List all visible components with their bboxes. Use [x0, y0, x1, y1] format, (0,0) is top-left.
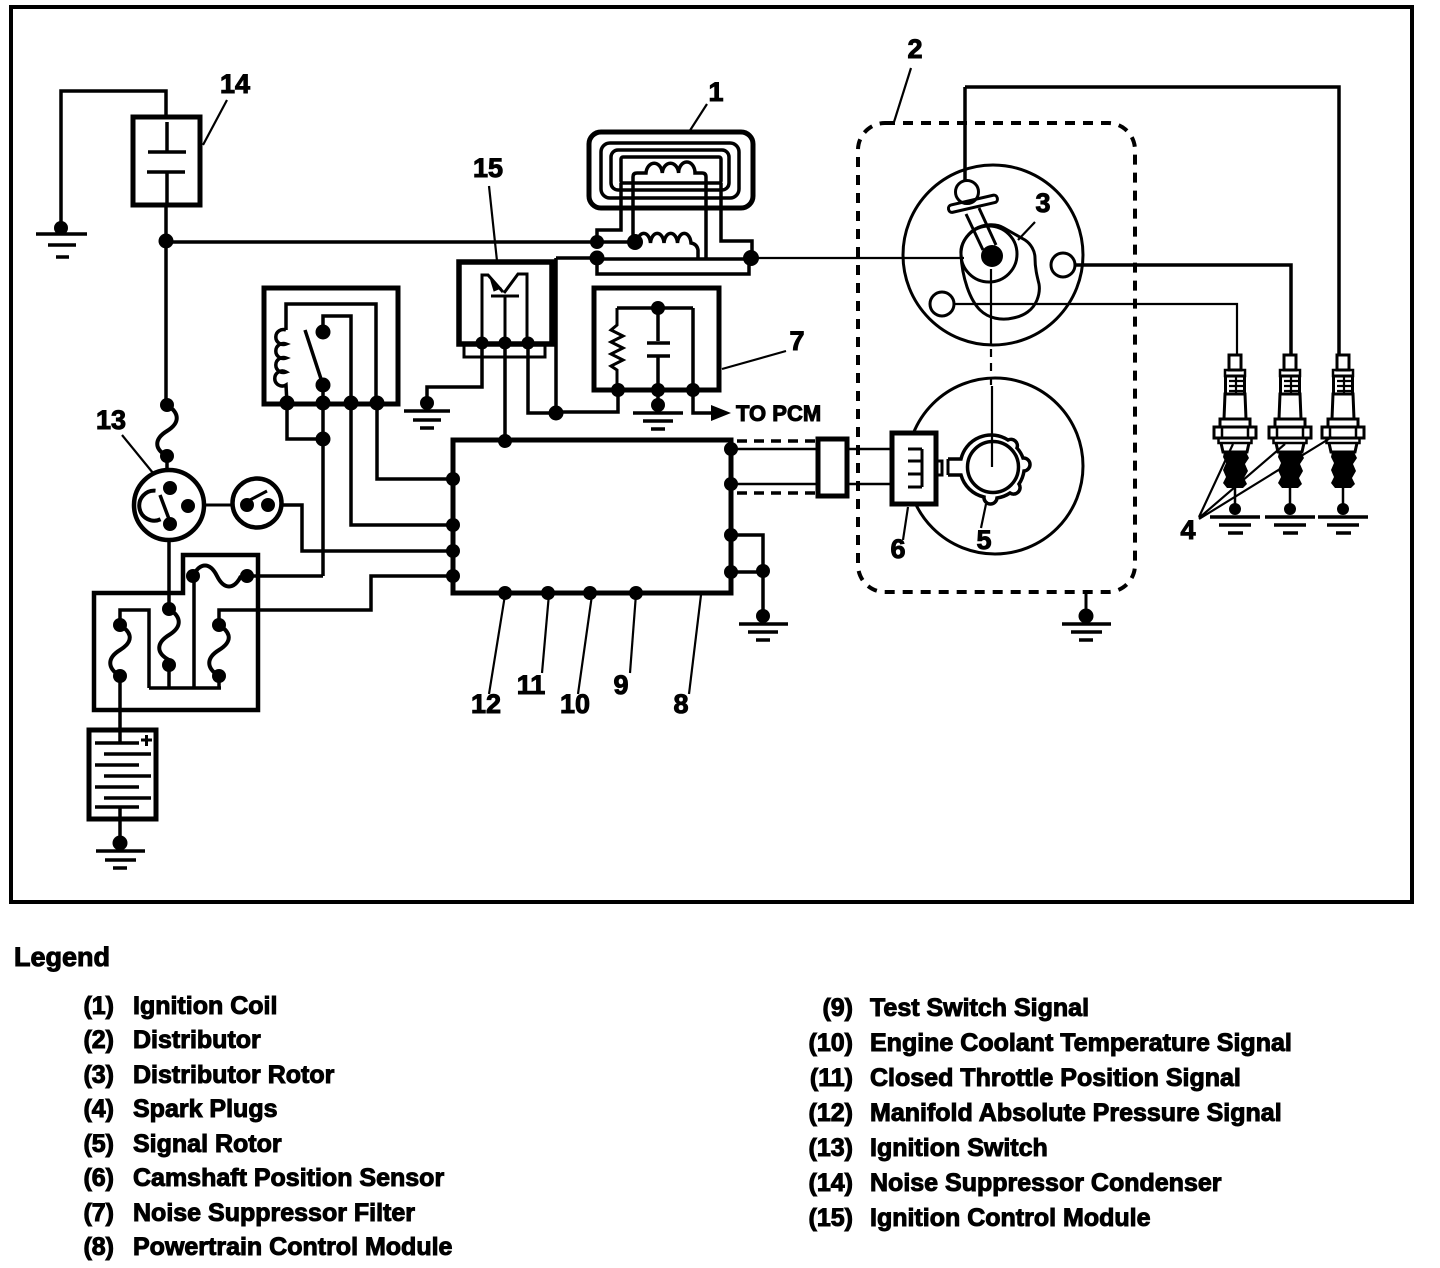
- battery negative lead: [118, 807, 122, 843]
- svg-text:8: 8: [673, 689, 688, 719]
- wire under primary: [597, 257, 751, 261]
- cap terminal lower-left: [930, 292, 954, 316]
- svg-text:(5): (5): [83, 1130, 114, 1158]
- relay inner box: [286, 304, 376, 404]
- svg-text:4: 4: [1180, 515, 1195, 545]
- svg-text:Legend: Legend: [14, 942, 110, 972]
- svg-text:12: 12: [471, 689, 501, 719]
- filter bottom dots: [611, 383, 625, 397]
- distributor rotor (3) big circle: [903, 165, 1083, 345]
- relay t3 wire to PCM: [351, 404, 453, 525]
- svg-text:(3): (3): [83, 1061, 114, 1089]
- ICM left lead to ground: [427, 343, 482, 399]
- svg-text:Engine Coolant Temperature Sig: Engine Coolant Temperature Signal: [870, 1029, 1292, 1057]
- relay box: [264, 288, 398, 404]
- ignition switch (13): [134, 470, 204, 540]
- filter right lead to PCM arrow: [693, 390, 713, 413]
- svg-text:3: 3: [1035, 188, 1050, 218]
- svg-text:(1): (1): [83, 992, 114, 1020]
- svg-text:1: 1: [708, 77, 723, 107]
- signal rotor gear: [968, 442, 1019, 493]
- spark plugs (4): [1210, 355, 1368, 533]
- relay terminal dots: [280, 396, 385, 411]
- signal rotor (5) circle: [907, 378, 1083, 554]
- relay t2 wire down: [321, 404, 325, 576]
- svg-text:Test Switch Signal: Test Switch Signal: [870, 994, 1089, 1022]
- svg-text:9: 9: [613, 670, 628, 700]
- fuse bottom rail: [149, 686, 221, 690]
- fuse F4 (right, vertical): [212, 618, 226, 632]
- powertrain control module (8) box: [453, 440, 731, 593]
- svg-text:Ignition Switch: Ignition Switch: [870, 1134, 1048, 1162]
- svg-text:Manifold Absolute Pressure Sig: Manifold Absolute Pressure Signal: [870, 1099, 1282, 1127]
- fuse box outline: [94, 555, 258, 710]
- coil case left lead to dot1: [597, 183, 621, 242]
- fuse F2 top lead: [120, 610, 149, 688]
- wire A: node to ignition coil primary: [166, 240, 635, 244]
- camshaft position sensor (6): [892, 433, 936, 504]
- wire condenser to node: [164, 205, 168, 241]
- filter capacitor: [647, 308, 670, 390]
- relay coil: [275, 330, 287, 405]
- capacitor C14 (noise suppressor condenser): [133, 117, 200, 205]
- spark plug wire 1 (thin): [954, 304, 1237, 355]
- svg-text:11: 11: [517, 670, 546, 700]
- distributor ground wire: [1085, 592, 1088, 614]
- ignition control module (15) box: [459, 262, 552, 344]
- svg-text:13: 13: [96, 405, 126, 435]
- svg-text:(9): (9): [822, 994, 853, 1022]
- ground G3 (filter): [633, 390, 683, 429]
- transistor inside ICM: [482, 274, 527, 343]
- PCM pin dots: [446, 434, 738, 600]
- svg-text:TO PCM: TO PCM: [736, 401, 821, 426]
- PCM ground loop: [731, 535, 763, 614]
- svg-text:(7): (7): [83, 1199, 114, 1227]
- wire node to ignition switch with fusible link: [164, 242, 168, 399]
- svg-text:10: 10: [560, 689, 590, 719]
- ICM terminal dots: [476, 337, 489, 350]
- svg-text:(10): (10): [809, 1029, 853, 1057]
- node A (condenser junction): [159, 234, 174, 249]
- svg-text:Noise Suppressor Condenser: Noise Suppressor Condenser: [870, 1169, 1222, 1197]
- filter resistor: [611, 308, 623, 390]
- fuse F1 (top, horizontal): [186, 569, 200, 583]
- ground G1 (top-left): [36, 221, 87, 257]
- fuse F1 left lead down: [192, 576, 196, 688]
- spark plug wire 2 (middle): [1075, 265, 1291, 355]
- svg-text:Distributor Rotor: Distributor Rotor: [133, 1061, 335, 1089]
- relay contact and blade: [323, 316, 351, 404]
- svg-text:Ignition Coil: Ignition Coil: [133, 992, 277, 1020]
- svg-text:(13): (13): [809, 1134, 853, 1162]
- svg-text:(14): (14): [809, 1169, 853, 1197]
- wire condenser-to-ground: [61, 91, 166, 226]
- distributor (2) dashed outline: [858, 123, 1135, 592]
- svg-text:(11): (11): [810, 1064, 853, 1092]
- switch to test connector wire: [204, 504, 234, 507]
- svg-text:Ignition Control Module: Ignition Control Module: [870, 1204, 1151, 1232]
- junction dot2 (coil primary left): [627, 234, 643, 250]
- junction dot3: [590, 251, 605, 266]
- svg-text:(15): (15): [809, 1204, 853, 1232]
- svg-text:(2): (2): [83, 1026, 114, 1054]
- spark plug wire 3 (top): [965, 87, 1339, 355]
- distributor cap wire from coil: [963, 87, 967, 181]
- fuse F1 output wire to relay: [247, 574, 323, 578]
- wire B vertical to ICM row: [554, 258, 558, 413]
- svg-text:14: 14: [220, 69, 250, 99]
- wire B: ICM feed to coil: [556, 256, 597, 260]
- svg-text:Powertrain Control Module: Powertrain Control Module: [133, 1233, 453, 1261]
- svg-text:(8): (8): [83, 1233, 114, 1261]
- relay t4 wire to PCM: [377, 404, 453, 479]
- coil case right lead to HV node: [721, 183, 752, 258]
- svg-text:Signal Rotor: Signal Rotor: [133, 1130, 282, 1158]
- svg-text:Spark Plugs: Spark Plugs: [133, 1095, 278, 1123]
- svg-text:(12): (12): [809, 1099, 853, 1127]
- junction dot1: [590, 235, 604, 249]
- filter right leg: [691, 308, 695, 390]
- ICM middle lead to PCM: [503, 343, 507, 441]
- svg-text:Camshaft Position Sensor: Camshaft Position Sensor: [133, 1164, 444, 1192]
- junction dot4 (HV out): [743, 250, 759, 266]
- filter left lead to junction: [556, 390, 618, 412]
- fuse F4 output to PCM: [219, 576, 453, 625]
- relay t1 jog wire: [287, 404, 323, 439]
- rotor neck: [966, 208, 996, 250]
- test connector circle: [233, 479, 282, 528]
- rotor hub: [961, 226, 1017, 282]
- svg-text:7: 7: [789, 326, 804, 356]
- ignition switch to fuse box wire: [167, 540, 171, 609]
- junction dot wireB/ICM/filter: [549, 406, 564, 421]
- test connector wire to PCM: [280, 505, 453, 551]
- rotor center: [981, 245, 1003, 267]
- ground G4 (PCM): [739, 609, 788, 640]
- svg-text:(4): (4): [83, 1095, 114, 1123]
- battery: [89, 730, 156, 819]
- svg-text:Noise Suppressor Filter: Noise Suppressor Filter: [133, 1199, 415, 1227]
- fuse F2 (left, vertical): [113, 618, 127, 632]
- ICM connector strip: [464, 344, 545, 357]
- rotor axis: [990, 269, 992, 345]
- svg-text:5: 5: [976, 525, 991, 555]
- svg-text:Distributor: Distributor: [133, 1026, 261, 1054]
- svg-text:(6): (6): [83, 1164, 114, 1192]
- filter top rail: [617, 306, 693, 310]
- ground G2 (ICM): [404, 396, 450, 428]
- PCM to sensor wires: [731, 449, 892, 484]
- svg-text:2: 2: [907, 34, 922, 64]
- cap terminal right: [1051, 253, 1075, 277]
- battery feed wire: [118, 676, 122, 743]
- inline connector: [818, 439, 847, 496]
- HV wire to distributor: [751, 257, 964, 259]
- coil secondary winding: [633, 162, 706, 259]
- coil primary winding: [637, 233, 698, 259]
- rotor body: [961, 225, 1040, 319]
- ground G5 (battery): [96, 836, 145, 869]
- wire loop below coil: [597, 259, 749, 274]
- fuse F3 (middle, vertical): [162, 602, 176, 616]
- noise suppressor filter (7) box: [594, 288, 719, 390]
- svg-text:15: 15: [473, 153, 503, 183]
- svg-text:Closed Throttle Position Signa: Closed Throttle Position Signal: [870, 1064, 1241, 1092]
- cap terminal top: [956, 181, 979, 204]
- ground G6 (distributor): [1062, 609, 1111, 641]
- ignition coil U1 (1) housing: [589, 132, 753, 208]
- rotor contact strip: [948, 194, 998, 213]
- ICM right lead: [528, 343, 556, 413]
